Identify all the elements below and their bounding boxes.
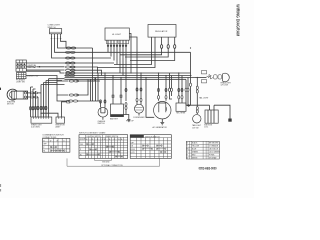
svg-text:ON: ON [131, 146, 133, 148]
table: wire color legend (right) [186, 141, 220, 159]
svg-text:TAIL LIGHT: TAIL LIGHT [199, 97, 209, 100]
svg-text:12V 25W: 12V 25W [221, 85, 229, 87]
svg-text:RECTIFIER: RECTIFIER [176, 113, 186, 115]
wire: rectifier stems [179, 73, 182, 103]
component: battery [110, 104, 124, 120]
table: switch continuity (center right) [130, 135, 171, 159]
table: lighting switch contact (left) [42, 134, 70, 153]
wire: ignition switch leads [26, 63, 64, 73]
component: regulator box (top right) [148, 25, 176, 38]
component: spark plug [228, 119, 231, 122]
table: switch continuity (center left) [79, 132, 128, 159]
wire: row 66 [71, 67, 98, 73]
wire: horn lead row1 with bullets [27, 92, 31, 94]
connector: main switch coupler box (top middle) [105, 28, 129, 47]
svg-text:OPTIONAL CONNECTION: OPTIONAL CONNECTION [101, 164, 123, 167]
wire: relay to terminal [62, 102, 67, 117]
wire: horn lead row2 with bullets [27, 96, 31, 98]
component: taillight circle [192, 115, 202, 130]
wire: row81 onward [76, 78, 95, 82]
harness: main band long runs [65, 73, 196, 81]
wire: box right to vertical x131 [129, 34, 131, 74]
svg-text:HL LIGHT: HL LIGHT [112, 34, 122, 36]
wire: drops x169-171 [170, 73, 172, 88]
svg-text:GROUND: GROUND [102, 161, 110, 163]
node: junction [40, 113, 41, 114]
svg-text:LIGHTING SWITCH: LIGHTING SWITCH [87, 136, 102, 138]
svg-text:OFF: OFF [80, 144, 83, 146]
svg-text:COIL: COIL [204, 127, 208, 129]
svg-text:HL: HL [43, 151, 45, 153]
component: dimmer switch box (left) [17, 73, 39, 79]
note: left edge mark [0, 88, 2, 90]
wire: battery terminals [113, 76, 121, 105]
note: ground bracket small [95, 158, 112, 160]
svg-text:LG LT.GREEN: LG LT.GREEN [209, 152, 221, 154]
wire: stepped harness runs upper [65, 52, 191, 83]
wire: switch pin1 to row 58 [52, 35, 65, 58]
svg-text:LIGHT SW: LIGHT SW [16, 82, 25, 84]
svg-text:BR BROWN: BR BROWN [209, 143, 219, 145]
component: engine stop relay box [56, 117, 66, 128]
svg-text:O ORANGE: O ORANGE [209, 145, 219, 148]
svg-text:MOTOR: MOTOR [7, 104, 14, 106]
svg-text:P PINK: P PINK [209, 155, 215, 157]
svg-text:REGULATOR: REGULATOR [155, 30, 168, 33]
svg-text:WHITE: WHITE [192, 157, 198, 159]
wire: condenser stems [137, 73, 141, 98]
svg-text:WIRING DIAGRAM: WIRING DIAGRAM [236, 4, 241, 36]
wire: headlight feed continues right [195, 77, 207, 79]
wire: row 48 long run to right side [70, 47, 93, 49]
component: pulse generator circle [98, 107, 108, 125]
svg-text:OFF: OFF [43, 144, 46, 146]
svg-text:BLACK: BLACK [192, 142, 198, 145]
component: headlight assembly (right) [202, 71, 232, 87]
wire: row 69.5 [71, 70, 102, 75]
wire: generator ground [160, 119, 164, 125]
wire: mid drops to row101 [91, 48, 99, 101]
connector: bullet pair row81 [69, 80, 74, 82]
svg-text:GR GRAY: GR GRAY [209, 156, 218, 159]
svg-text:BATTERY: BATTERY [110, 117, 119, 120]
svg-text:P: P [80, 149, 81, 151]
connector: bullet pair row48 [66, 47, 71, 49]
component: spark unit box [31, 117, 52, 128]
component: starter motor / horn (bottom left) [7, 89, 28, 106]
wire: pulse stems with bullets [101, 73, 106, 107]
svg-text:LB LT.BLUE: LB LT.BLUE [209, 149, 219, 151]
wire: dimmer leads to row 81 [26, 76, 68, 82]
svg-text:YELLOW: YELLOW [192, 146, 199, 148]
connector: bullets on drop bundle [30, 106, 32, 110]
wire: battery ground [124, 115, 131, 122]
component: condenser circle [133, 104, 145, 119]
svg-text:P.OFF: P.OFF [131, 149, 135, 151]
connector: bullet pairs left rows [66, 51, 71, 53]
svg-text:GREEN: GREEN [192, 152, 199, 154]
note: optional connection bracket [67, 158, 160, 166]
svg-text:B W R G: B W R G [44, 140, 67, 142]
wire: bundle top bends from harness [31, 79, 65, 89]
wire: row 93.5 [57, 81, 68, 95]
svg-text:DIMMER SWITCH: DIMMER SWITCH [105, 136, 119, 138]
svg-text:SWITCH CONTINUITY CHART: SWITCH CONTINUITY CHART [79, 132, 106, 135]
component: ignition coil [204, 110, 218, 129]
terminal: ring [67, 100, 70, 103]
wire: switch pin4 joins row 48 [61, 35, 67, 48]
connector: bullet pair y101 [68, 100, 73, 102]
svg-text:CONDENSER: CONDENSER [133, 117, 145, 119]
wire: coupler pins descend [108, 44, 126, 78]
wire: drops x186-191 [186, 78, 191, 89]
svg-text:(CDI UNIT): (CDI UNIT) [31, 126, 40, 128]
component: ignition switch box (left) [16, 60, 37, 71]
svg-text:ASSY: ASSY [56, 125, 62, 128]
svg-text:W B G BR: W B G BR [104, 139, 124, 141]
svg-text:12V 5W: 12V 5W [192, 127, 199, 129]
wire: generator stems with bullets [158, 73, 160, 101]
svg-text:LOCK: LOCK [131, 152, 135, 154]
wire: row 101 [57, 95, 68, 101]
svg-text:SWITCH: SWITCH [98, 123, 106, 125]
svg-text:HL: HL [80, 154, 82, 156]
wire: drop x126 with bullets [125, 78, 127, 102]
svg-text:FR.STOP: FR.STOP [126, 121, 135, 123]
wire: right vertical to taillight [196, 78, 198, 87]
wire: switch pin3 to row 48 [58, 35, 70, 48]
svg-text:OFF: OFF [131, 142, 134, 144]
wire: left drop bundle to spark unit [31, 79, 49, 117]
wire: drop x146 bend [146, 78, 154, 118]
svg-text:B W R Y: B W R Y [86, 139, 105, 141]
wire: regulator left-bottom leads [97, 37, 155, 67]
wire: regulator outputs with bullet connectors [120, 37, 162, 55]
svg-text:0052-HB3-0000: 0052-HB3-0000 [199, 167, 217, 171]
connector: handlebar switch 4P (top left) [48, 25, 62, 39]
component: AC generator (big circle) [153, 102, 172, 130]
note: scan artifact bottom-left [0, 184, 2, 192]
wire: box right to vertical x137 [129, 37, 137, 76]
wire: switch pin2 to row 53.5 [55, 35, 65, 52]
component: rectifier box [176, 103, 191, 115]
wire: ignition coil feed [191, 105, 230, 118]
node: junction dots [97, 47, 198, 78]
svg-text:IGNITION SWITCH: IGNITION SWITCH [145, 136, 160, 138]
svg-text:AC GENERATOR: AC GENERATOR [153, 126, 168, 129]
